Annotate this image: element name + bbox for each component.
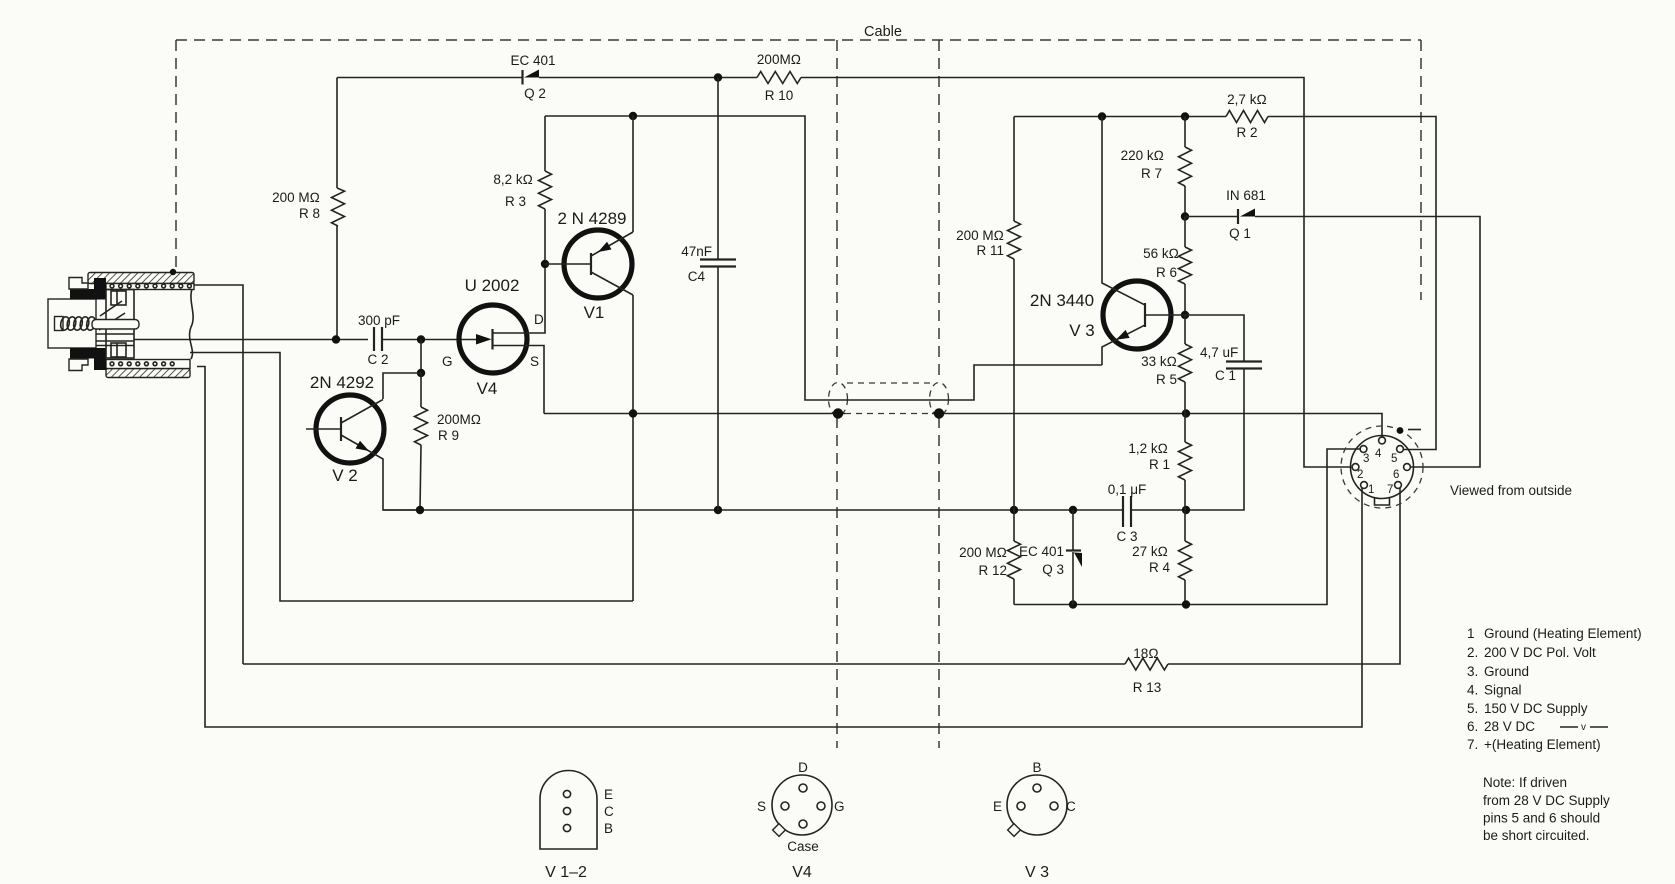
wire: gate node down to V2 collector junction [420, 340, 422, 374]
wire: junction to V2 collector bend [383, 373, 421, 399]
capacitor C4 bottom lead [717, 267, 719, 511]
transistor V1 circle [564, 230, 632, 298]
capsule top strip hole 7 [162, 284, 166, 288]
wire: ground rail cable to DIN pin 4 [932, 414, 1382, 438]
resistor R13 zigzag [1125, 658, 1168, 670]
capsule top strip hole 3 [127, 284, 131, 288]
wire: Q2 to R10 [539, 77, 757, 79]
capsule top strip hole 6 [153, 284, 157, 288]
junction C4 bottom [714, 506, 722, 514]
svg-text:V 2: V 2 [332, 466, 358, 485]
svg-text:C: C [1066, 799, 1076, 814]
junction R7 bottom / Q1 [1181, 212, 1189, 220]
wire: heater rail to R13 [243, 663, 1125, 665]
pinout V1-2 pin B [563, 824, 570, 831]
capsule top strip hole 5 [145, 284, 149, 288]
svg-text:Cable: Cable [864, 24, 902, 40]
capacitor C2 right plate [381, 327, 383, 351]
svg-text:150 V DC Supply: 150 V DC Supply [1484, 701, 1588, 716]
junction V1 collector on rail [629, 409, 637, 417]
svg-text:Case: Case [787, 839, 819, 854]
cable shield junction left [833, 408, 843, 418]
svg-text:200 V DC Pol. Volt: 200 V DC Pol. Volt [1484, 645, 1596, 660]
DIN pin 2 [1352, 464, 1359, 471]
svg-text:2: 2 [1357, 469, 1363, 481]
pinout V3 pin C [1050, 802, 1058, 810]
cable shield junction right [934, 408, 944, 418]
wire: capsule pin to C2 [134, 339, 368, 341]
transistor V2 collector lead [341, 400, 383, 424]
junction R4 bottom [1182, 600, 1190, 608]
svg-text:R 8: R 8 [299, 206, 320, 221]
capsule body break line [190, 289, 194, 359]
resistor R4 zigzag [1179, 541, 1192, 580]
capsule bottom strip hole 3 [127, 362, 131, 366]
pinout V4 keyway tab [773, 824, 786, 837]
capsule bottom strip hole 4 [136, 362, 140, 366]
capsule stepped collar lower [69, 359, 88, 371]
svg-text:47nF: 47nF [681, 244, 712, 259]
microphone capsule body hatched top strip [88, 273, 194, 284]
FET V4 circle [459, 305, 527, 373]
wire: C2 to V4 gate [382, 339, 478, 341]
DIN pin 1 [1361, 482, 1368, 489]
resistor R6 leads [1184, 217, 1186, 316]
svg-text:200MΩ: 200MΩ [757, 52, 801, 67]
svg-text:+(Heating Element): +(Heating Element) [1484, 737, 1601, 752]
capsule terminal block upper inner pin [116, 291, 118, 305]
svg-text:V 1–2: V 1–2 [545, 864, 587, 881]
dashed cable boundary right [1420, 40, 1422, 300]
svg-text:1: 1 [1467, 626, 1475, 641]
svg-text:R 7: R 7 [1141, 166, 1162, 181]
capacitor C3 right plate [1130, 496, 1132, 527]
resistor R8 zigzag [332, 188, 345, 226]
svg-text:C 2: C 2 [367, 352, 388, 367]
pinout V4 pin G [817, 802, 825, 810]
svg-text:D: D [534, 312, 544, 327]
capacitor C4 bottom plate [700, 265, 736, 267]
wire: R2 to DIN pin 5 [1268, 117, 1436, 450]
svg-text:S: S [530, 354, 539, 369]
svg-text:200 MΩ: 200 MΩ [956, 228, 1004, 243]
shield wire dashed inside tube [845, 413, 932, 415]
svg-text:B: B [604, 821, 613, 836]
resistor R3 top lead [544, 116, 546, 171]
svg-text:V1: V1 [584, 303, 605, 322]
svg-text:4: 4 [1375, 448, 1382, 460]
svg-text:be short circuited.: be short circuited. [1483, 828, 1590, 843]
resistor R5 leads [1184, 315, 1186, 414]
transistor V2 base stub [306, 428, 341, 430]
transistor V3 base bar [1144, 303, 1146, 327]
svg-text:V 3: V 3 [1069, 321, 1095, 340]
capsule bottom strip hole 8 [170, 362, 174, 366]
transistor V3 emitter lead [1102, 325, 1145, 365]
resistor R9 leads [420, 373, 421, 510]
cable dashed line right lower [938, 417, 940, 748]
svg-text:G: G [442, 354, 453, 369]
dashed cable boundary left [175, 40, 177, 269]
svg-text:0,1 μF: 0,1 μF [1108, 482, 1147, 497]
transistor V1 base wire [545, 263, 591, 265]
svg-text:2,7 kΩ: 2,7 kΩ [1227, 92, 1267, 107]
cable sheath tube right ellipse [930, 383, 949, 416]
capsule outer shell left block [48, 299, 96, 348]
transistor V3 emitter arrow [1116, 330, 1130, 340]
junction V3 base node [1181, 311, 1189, 319]
resistor R1 zigzag [1179, 442, 1192, 480]
svg-text:R 13: R 13 [1133, 680, 1162, 695]
capacitor C4 top plate [700, 258, 736, 260]
svg-text:R 11: R 11 [976, 243, 1004, 258]
resistor R12 zigzag [1008, 541, 1021, 579]
wire: R3 top rail to cable down lead [545, 116, 1102, 400]
svg-text:3: 3 [1363, 453, 1369, 465]
capsule screw spring coils [59, 316, 70, 331]
resistor R11 zigzag [1008, 221, 1021, 259]
transistor V1 emitter arrow [598, 242, 612, 252]
capsule top strip hole 8 [170, 284, 174, 288]
capsule top strip hole 2 [119, 284, 123, 288]
wire: 200V supply line from R8 top to diode Q2 [337, 77, 522, 79]
capsule bottom strip hole 6 [153, 362, 157, 366]
junction Q3 bottom [1069, 600, 1077, 608]
pinout V3 pin B [1033, 784, 1041, 792]
svg-text:2N 3440: 2N 3440 [1030, 291, 1094, 310]
capsule terminal block upper [111, 291, 126, 305]
svg-text:Q 2: Q 2 [524, 86, 546, 101]
legend 28V DC symbol [1560, 726, 1608, 728]
junction R9 bottom [416, 506, 424, 514]
transistor V3 base wire [1145, 314, 1185, 316]
svg-text:7.: 7. [1467, 737, 1478, 752]
pinout V3 circle [1007, 775, 1067, 835]
svg-text:V4: V4 [792, 864, 812, 881]
capacitor C1 top plate [1226, 360, 1262, 362]
DIN pin 3 [1360, 446, 1367, 453]
dashed cable boundary top [176, 39, 1421, 41]
svg-text:Q 1: Q 1 [1229, 226, 1251, 241]
junction V1 emitter top [629, 112, 637, 120]
cable sheath tube top dashed line [847, 382, 930, 384]
svg-text:200MΩ: 200MΩ [437, 412, 481, 427]
svg-text:V 3: V 3 [1025, 864, 1049, 881]
wire: ground rail V4 source to cable [544, 413, 845, 415]
svg-text:R 5: R 5 [1156, 372, 1177, 387]
junction V1 base node [541, 260, 549, 268]
capsule center contact pin [92, 320, 139, 330]
diode Q1 cathode bar [1237, 209, 1239, 224]
capacitor C1 top lead [1185, 315, 1244, 361]
svg-text:V4: V4 [477, 379, 498, 398]
resistor R3 bottom lead [544, 209, 546, 264]
svg-text:C4: C4 [688, 269, 706, 284]
capsule cartridge housing [106, 290, 134, 359]
capacitor C4 top lead [717, 78, 719, 260]
svg-text:C 3: C 3 [1116, 529, 1137, 544]
resistor R12 leads [1013, 510, 1015, 605]
transistor V2 circle [316, 395, 384, 463]
diode Q3 cathode bar [1066, 549, 1081, 551]
svg-text:4.: 4. [1467, 683, 1478, 698]
svg-text:C 1: C 1 [1215, 368, 1236, 383]
transistor V2 emitter lead [341, 435, 420, 510]
pinout V4 pin D [799, 784, 807, 792]
svg-text:5: 5 [1391, 453, 1397, 465]
svg-text:R 6: R 6 [1156, 265, 1177, 280]
junction V3 collector top [1098, 112, 1106, 120]
DIN connector keyway [1375, 498, 1390, 506]
capsule top strip hole 9 [179, 284, 183, 288]
wire: V1 vertical emitter-collector line [632, 116, 634, 601]
pinout V3 keyway tab [1008, 824, 1021, 837]
junction C4 top [714, 73, 722, 81]
DIN pin 5 [1397, 446, 1404, 453]
svg-text:R 10: R 10 [765, 88, 794, 103]
transistor V2 base bar [340, 417, 342, 441]
FET V4 channel bar [491, 329, 493, 350]
FET V4 source stub [493, 346, 545, 414]
wire: lower rail R12 bottom to DIN pin 3 [1014, 449, 1361, 605]
svg-text:v: v [1581, 722, 1586, 733]
wire: capsule case to V1 collector node [190, 353, 633, 602]
svg-text:2N 4292: 2N 4292 [310, 373, 374, 392]
svg-text:200 MΩ: 200 MΩ [959, 545, 1007, 560]
FET V4 gate arrow [476, 334, 492, 345]
pinout V1-2 pin E [563, 790, 570, 797]
svg-text:IN 681: IN 681 [1226, 188, 1266, 203]
transistor V1 base bar [590, 253, 592, 275]
diode Q2 triangle [524, 70, 539, 78]
svg-text:33 kΩ: 33 kΩ [1141, 354, 1177, 369]
DIN shield tick [1408, 429, 1421, 431]
resistor R2 zigzag [1226, 111, 1268, 123]
svg-text:C: C [604, 804, 614, 819]
svg-text:28 V DC: 28 V DC [1484, 719, 1535, 734]
resistor R8 bottom lead [336, 226, 338, 340]
svg-text:B: B [1032, 760, 1041, 775]
cable dashed line left lower [836, 417, 838, 748]
wire: R10 to right corner [801, 78, 1351, 468]
pinout V4 circle [772, 775, 832, 835]
junction R8 bottom [332, 335, 340, 343]
svg-text:5.: 5. [1467, 701, 1478, 716]
svg-text:300 pF: 300 pF [358, 313, 400, 328]
resistor R9 zigzag [415, 407, 428, 445]
svg-text:6: 6 [1393, 469, 1399, 481]
capsule bottom strip hole 5 [145, 362, 149, 366]
diode Q1 triangle [1240, 209, 1255, 217]
FET V4 drain stub [493, 264, 546, 333]
svg-text:Signal: Signal [1484, 683, 1522, 698]
svg-text:EC 401: EC 401 [1019, 544, 1064, 559]
svg-text:R 3: R 3 [505, 194, 526, 209]
resistor R1 leads [1184, 414, 1186, 511]
svg-text:Ground: Ground [1484, 664, 1529, 679]
resistor R5 zigzag [1179, 344, 1192, 382]
svg-text:from 28 V DC Supply: from 28 V DC Supply [1483, 793, 1610, 808]
svg-text:8,2 kΩ: 8,2 kΩ [493, 172, 533, 187]
svg-text:Q 3: Q 3 [1042, 562, 1064, 577]
svg-text:Viewed from outside: Viewed from outside [1450, 483, 1572, 498]
capsule bottom strip hole 1 [110, 362, 114, 366]
svg-text:Ground (Heating Element): Ground (Heating Element) [1484, 626, 1642, 641]
diode Q3 leads [1072, 510, 1074, 605]
capacitor C2 left plate [373, 327, 375, 351]
diode Q1 wire left [1185, 216, 1238, 218]
svg-text:R 2: R 2 [1236, 125, 1257, 140]
svg-text:56 kΩ: 56 kΩ [1143, 246, 1179, 261]
DIN connector body circle [1351, 436, 1414, 499]
DIN pin 6 [1404, 464, 1411, 471]
svg-text:E: E [993, 799, 1002, 814]
svg-text:EC 401: EC 401 [510, 53, 555, 68]
pinout V1-2 pin C [563, 807, 570, 814]
cable dashed line right upper [938, 40, 940, 381]
capsule bottom circles strip [106, 360, 190, 369]
DIN shield solder dot [1397, 427, 1404, 434]
capsule bottom strip hole 2 [119, 362, 123, 366]
pinout V1-2 outline [540, 771, 597, 850]
svg-text:6.: 6. [1467, 719, 1478, 734]
capsule terminal block lower inner pin [116, 343, 118, 357]
capsule top strip hole 4 [136, 284, 140, 288]
svg-text:R 4: R 4 [1149, 560, 1171, 575]
resistor R6 zigzag [1179, 247, 1192, 284]
svg-text:G: G [834, 799, 845, 814]
transistor V3 collector lead [1102, 117, 1145, 306]
junction Q3 top [1069, 506, 1077, 514]
resistor R7 zigzag [1179, 147, 1192, 186]
resistor R8 top lead [336, 78, 338, 189]
resistor R4 leads [1184, 510, 1186, 605]
wire: 150V rail R11 to R2 [1014, 116, 1226, 118]
wire: R13 to DIN pin 7 [1168, 488, 1400, 664]
svg-text:1,2 kΩ: 1,2 kΩ [1128, 441, 1168, 456]
wire: emitter rail V2 to C3 [383, 509, 1123, 511]
capsule bottom strip hole 7 [162, 362, 166, 366]
svg-text:1: 1 [1368, 484, 1374, 496]
wire: Q1 to DIN pin 6 [1255, 217, 1480, 468]
wire: capsule bottom strip to pin1 rail [197, 367, 1362, 728]
svg-text:E: E [604, 787, 613, 802]
wire: C3 to C1 bottom corner [1131, 369, 1244, 510]
DIN connector dashed shield circle [1341, 426, 1423, 508]
junction gate node [417, 335, 425, 343]
junction R11 bottom / R12 top [1010, 506, 1018, 514]
svg-text:pins 5 and 6 should: pins 5 and 6 should [1483, 811, 1600, 826]
capacitor C3 left plate [1122, 496, 1124, 527]
cable sheath tube left ellipse [829, 383, 848, 416]
svg-text:Note: If driven: Note: If driven [1483, 775, 1567, 790]
junction R5 bottom / R1 top [1182, 409, 1190, 417]
DIN pin 7 [1395, 482, 1402, 489]
transistor V2 emitter arrow [356, 441, 370, 451]
capsule shell black seal lower [70, 348, 106, 370]
junction R7 top [1181, 112, 1189, 120]
cable dashed line left upper [836, 40, 838, 381]
svg-text:220 kΩ: 220 kΩ [1121, 148, 1164, 163]
DIN pin 4 [1379, 437, 1386, 444]
microphone capsule body hatched bottom strip [106, 369, 190, 378]
capsule top strip hole 10 [188, 284, 192, 288]
svg-text:R 12: R 12 [978, 563, 1007, 578]
diode Q2 cathode bar [521, 70, 523, 85]
svg-text:7: 7 [1387, 484, 1393, 496]
svg-text:27 kΩ: 27 kΩ [1132, 544, 1168, 559]
resistor R11 top lead [1013, 117, 1015, 222]
pinout V4 pin case [799, 820, 807, 828]
pinout V3 pin E [1017, 802, 1025, 810]
svg-text:R 1: R 1 [1149, 457, 1170, 472]
resistor R7 leads [1184, 117, 1186, 217]
capsule housing hatch marks [96, 301, 134, 346]
svg-text:D: D [798, 760, 808, 775]
capacitor C1 bottom plate [1226, 367, 1262, 369]
svg-text:R 9: R 9 [438, 428, 459, 443]
svg-text:200 MΩ: 200 MΩ [272, 190, 320, 205]
svg-text:U 2002: U 2002 [465, 276, 520, 295]
svg-text:2 N 4289: 2 N 4289 [558, 209, 627, 228]
capsule top circles strip [106, 284, 194, 290]
capsule shell black seal upper [70, 278, 106, 300]
junction V2 collector / R9 top [417, 369, 425, 377]
resistor R3 zigzag [539, 171, 552, 209]
resistor R10 zigzag [757, 72, 801, 84]
junction R1 bottom / R4 top [1182, 506, 1190, 514]
capsule shield connection dot [170, 269, 176, 275]
capsule terminal block lower [111, 343, 126, 357]
svg-text:3.: 3. [1467, 664, 1478, 679]
capsule top strip hole 1 [110, 284, 114, 288]
pinout V4 pin S [781, 802, 789, 810]
svg-text:4,7 uF: 4,7 uF [1200, 345, 1238, 360]
capsule screw head [55, 317, 64, 331]
transistor V1 emitter lead [591, 232, 633, 256]
diode Q3 triangle [1074, 553, 1082, 568]
svg-text:2.: 2. [1467, 645, 1478, 660]
transistor V3 circle [1103, 281, 1171, 349]
capsule stepped collar upper [69, 278, 88, 290]
svg-text:S: S [757, 799, 766, 814]
svg-text:18Ω: 18Ω [1133, 646, 1158, 661]
wire: capsule top strip to pin7 rail [194, 285, 243, 664]
resistor R11 bottom lead [1013, 259, 1015, 510]
transistor V1 collector lead [591, 272, 633, 295]
